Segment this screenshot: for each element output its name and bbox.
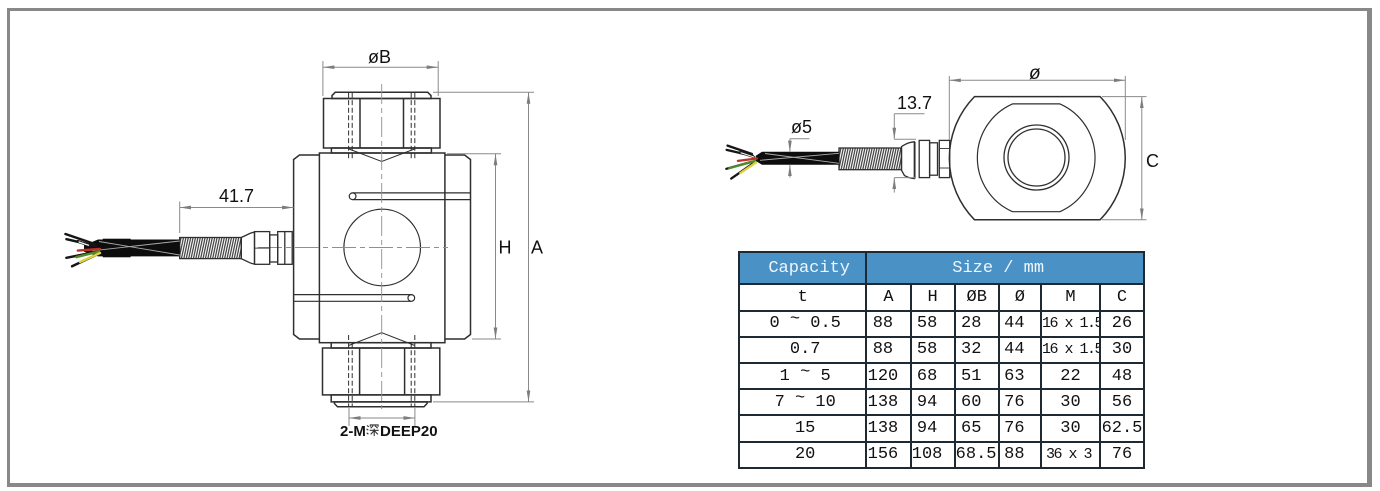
svg-text:øB: øB bbox=[368, 47, 391, 67]
svg-text:H: H bbox=[499, 238, 512, 258]
svg-text:2-M: 2-M bbox=[340, 423, 366, 440]
svg-text:A: A bbox=[531, 238, 543, 258]
svg-text:13.7: 13.7 bbox=[897, 93, 932, 113]
svg-text:ø5: ø5 bbox=[791, 117, 812, 137]
svg-text:41.7: 41.7 bbox=[219, 186, 254, 206]
svg-text:C: C bbox=[1146, 151, 1159, 171]
svg-text:ø: ø bbox=[1029, 63, 1041, 84]
svg-text:DEEP20: DEEP20 bbox=[380, 423, 438, 440]
